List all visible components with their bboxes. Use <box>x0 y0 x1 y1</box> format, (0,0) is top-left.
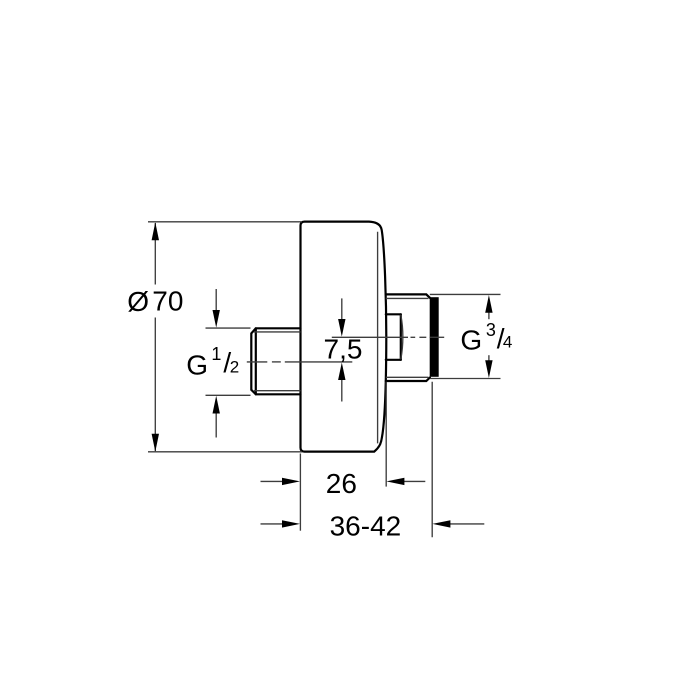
G 3/4 extension line top <box>430 293 501 295</box>
G 3/4 union nut stub top edge <box>386 294 430 297</box>
dia 70 arrow up <box>152 222 159 240</box>
internal bore edge <box>400 314 402 360</box>
26 extension line right <box>385 382 387 487</box>
wall flange body outline <box>301 222 387 452</box>
G 3/4 axis center line <box>332 336 444 338</box>
G 3/4 stub thread relief top <box>386 297 429 299</box>
G 1/2 extension line bottom <box>206 394 251 396</box>
G 1/2 stub thread relief bottom <box>254 390 301 392</box>
dia 70 extension line bottom <box>148 451 302 453</box>
G 3/4 extension line bottom <box>430 378 501 380</box>
svg-text:4: 4 <box>503 333 512 352</box>
36-42 dimension line right <box>450 523 484 525</box>
G 1/2 extension line top <box>206 327 251 329</box>
seal ring (black) <box>430 297 439 377</box>
G 3/4 dimension arrow up <box>488 312 490 319</box>
svg-text:7,5: 7,5 <box>324 334 363 365</box>
dia 70 dimension line <box>154 223 156 285</box>
bore seat curve <box>401 315 403 360</box>
G 1/2 stub chamfer edge <box>255 328 257 394</box>
svg-text:2: 2 <box>230 357 239 376</box>
svg-text:Ø: Ø <box>127 286 149 317</box>
G 1/2 dimension arrow bottom <box>215 413 217 438</box>
flange face line <box>377 232 379 444</box>
G 1/2 axis center line <box>247 361 352 363</box>
svg-text:G: G <box>186 349 208 380</box>
G 1/2 dimension arrow top <box>215 289 217 311</box>
svg-text:26: 26 <box>326 468 357 499</box>
dia 70 arrow down <box>152 434 159 452</box>
7,5 offset arrow down <box>341 298 343 319</box>
svg-text:36-42: 36-42 <box>330 511 402 542</box>
G 3/4 dimension arrow down <box>488 355 490 361</box>
svg-text:1: 1 <box>211 344 221 364</box>
7,5 offset arrow up <box>341 380 343 402</box>
internal bore bottom <box>386 359 401 361</box>
G 1/2 stub thread relief top <box>254 331 301 333</box>
36-42 extension line right <box>431 382 433 538</box>
G 3/4 union nut stub bottom edge <box>386 378 430 382</box>
26 extension line left <box>299 454 301 531</box>
svg-text:3: 3 <box>486 320 496 340</box>
36-42 dimension line left <box>261 523 283 525</box>
G 3/4 stub thread relief bottom <box>386 376 429 378</box>
26 dimension line right <box>404 480 426 482</box>
svg-text:70: 70 <box>152 285 183 316</box>
internal bore top <box>386 313 401 315</box>
G 1/2 threaded stub outline <box>251 328 300 394</box>
svg-text:G: G <box>460 325 482 356</box>
dia 70 extension line top <box>148 221 302 223</box>
26 dimension line left <box>261 480 283 482</box>
